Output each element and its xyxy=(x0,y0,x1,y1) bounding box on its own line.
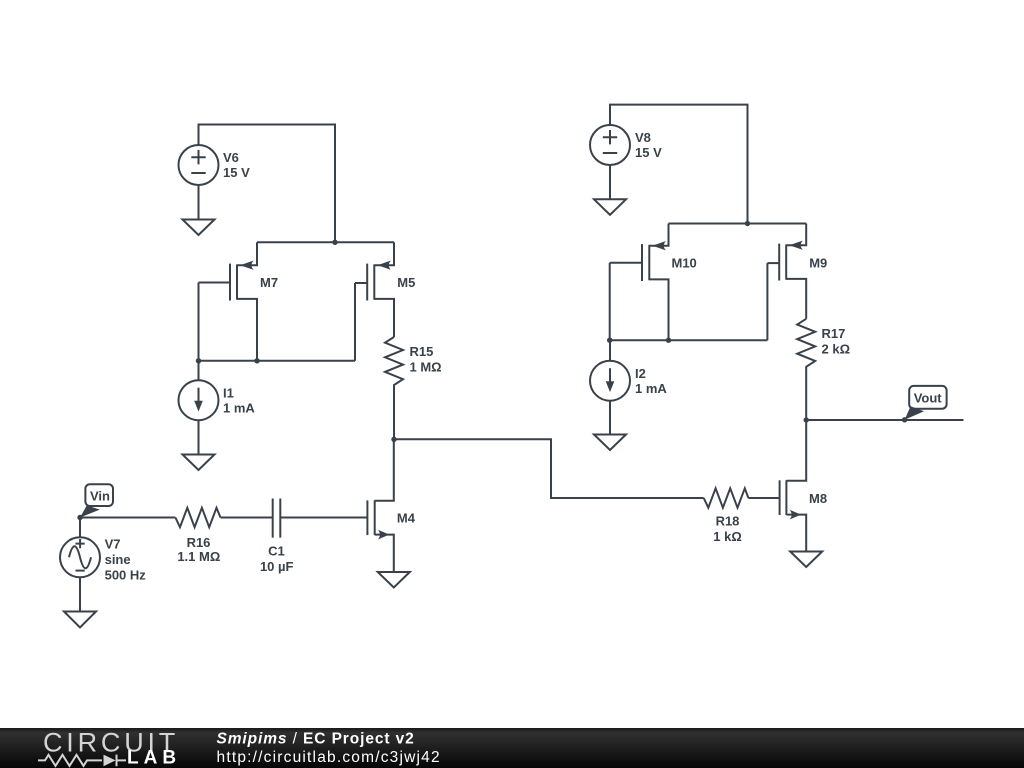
svg-text:M8: M8 xyxy=(809,491,827,506)
svg-text:500 Hz: 500 Hz xyxy=(105,567,147,582)
svg-text:10 µF: 10 µF xyxy=(260,559,294,574)
node Vout xyxy=(902,417,907,422)
svg-text:Smipims / EC Project v2: Smipims / EC Project v2 xyxy=(217,731,415,748)
wire I1 to ground xyxy=(198,420,200,454)
resistor R15 1 MΩ xyxy=(385,337,442,439)
capacitor C1 10 µF xyxy=(260,499,294,574)
svg-text:Vin: Vin xyxy=(90,488,110,503)
svg-text:M7: M7 xyxy=(260,275,278,290)
svg-text:1 MΩ: 1 MΩ xyxy=(410,360,442,375)
resistor R17 2 kΩ xyxy=(797,319,850,420)
svg-text:15 V: 15 V xyxy=(223,165,250,180)
svg-text:1 mA: 1 mA xyxy=(635,381,667,396)
node M7 gate junction xyxy=(196,358,201,363)
transistor M7 (PMOS) xyxy=(199,242,279,360)
wire output to Vout xyxy=(806,419,963,421)
flag Vin xyxy=(80,484,113,517)
ground below V7 xyxy=(64,612,96,628)
svg-text:C1: C1 xyxy=(268,543,285,558)
wire I2 to ground xyxy=(609,401,611,435)
ground below V6 xyxy=(183,185,215,235)
node Vin xyxy=(77,515,82,520)
wire mirror rail stage 1 xyxy=(199,360,356,362)
svg-text:M4: M4 xyxy=(397,511,416,526)
node stage 1 output xyxy=(391,437,396,442)
flag Vout xyxy=(905,386,947,420)
svg-text:R15: R15 xyxy=(410,344,434,359)
svg-text:Vout: Vout xyxy=(914,390,943,405)
node stage 2 output xyxy=(804,417,809,422)
wire supply rail stage 2 xyxy=(669,223,807,225)
wire supply rail stage 1 xyxy=(257,241,394,243)
wire M9 gate down to mirror rail xyxy=(766,263,768,340)
wire R16 to C1 xyxy=(221,517,273,519)
wire M7 gate down to mirror rail xyxy=(198,283,200,361)
wire V6 top to supply rail xyxy=(199,125,336,243)
ground below M8 xyxy=(790,552,822,568)
svg-text:1 mA: 1 mA xyxy=(223,400,255,415)
svg-text:I2: I2 xyxy=(635,366,646,381)
svg-text:I1: I1 xyxy=(223,385,234,400)
svg-text:15 V: 15 V xyxy=(635,145,662,160)
current source I2 1 mA xyxy=(590,340,667,401)
svg-text:2 kΩ: 2 kΩ xyxy=(822,341,851,356)
transistor M5 (PMOS) xyxy=(355,242,415,337)
ground below V8 xyxy=(594,165,626,215)
transistor M8 (NMOS) xyxy=(780,420,827,552)
svg-text:R18: R18 xyxy=(716,513,740,528)
node M7 drain junction xyxy=(254,358,259,363)
wire V7 to ground xyxy=(79,577,81,611)
ground below M4 xyxy=(378,572,410,588)
wire R18 to M8 gate xyxy=(748,497,779,499)
svg-text:M9: M9 xyxy=(809,255,827,270)
voltage source V8 15 V xyxy=(590,125,662,165)
ground below I2 xyxy=(594,435,626,451)
node M10 gate junction xyxy=(607,338,612,343)
node supply stage 1 xyxy=(332,240,337,245)
current source I1 1 mA xyxy=(179,361,256,420)
wire mirror rail stage 2 xyxy=(610,339,768,341)
svg-text:R16: R16 xyxy=(187,535,211,550)
svg-text:V6: V6 xyxy=(223,150,239,165)
wire M5 gate down to mirror rail xyxy=(354,283,356,361)
wire M10 gate down to mirror rail xyxy=(609,263,611,340)
wire V8 top to supply rail xyxy=(610,105,748,224)
voltage source V7 sine 500 Hz xyxy=(60,518,146,583)
svg-text:M5: M5 xyxy=(397,275,415,290)
ground below I1 xyxy=(183,455,215,471)
wire stage 1 output to R18 xyxy=(394,439,704,498)
voltage source V6 15 V xyxy=(179,145,251,185)
svg-text:sine: sine xyxy=(105,552,131,567)
svg-text:M10: M10 xyxy=(672,255,697,270)
svg-text:V7: V7 xyxy=(105,536,121,551)
transistor M10 (PMOS) xyxy=(610,224,697,341)
transistor M9 (PMOS) xyxy=(767,224,827,319)
svg-text:R17: R17 xyxy=(822,326,846,341)
node M10 drain junction xyxy=(666,338,671,343)
resistor R18 1 kΩ xyxy=(704,488,749,544)
svg-text:V8: V8 xyxy=(635,130,651,145)
wire C1 to M4 gate xyxy=(280,517,367,519)
svg-text:http://circuitlab.com/c3jwj42: http://circuitlab.com/c3jwj42 xyxy=(217,749,441,766)
svg-text:1 kΩ: 1 kΩ xyxy=(713,529,742,544)
wire Vin to R16 xyxy=(80,517,175,519)
svg-text:LAB: LAB xyxy=(127,748,181,768)
transistor M4 (NMOS) xyxy=(367,439,415,572)
node supply stage 2 xyxy=(745,221,750,226)
svg-text:1.1 MΩ: 1.1 MΩ xyxy=(177,549,220,564)
resistor R16 1.1 MΩ xyxy=(175,508,220,564)
